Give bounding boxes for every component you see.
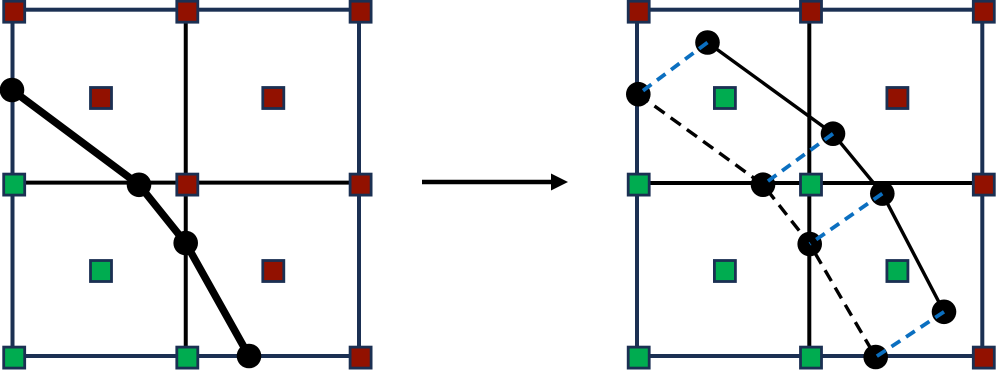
left grid inner horizontal line xyxy=(13,181,360,185)
right cell square bottom-left (green) xyxy=(714,261,735,282)
right old front marker 2 xyxy=(751,172,776,197)
left node square top-mid (red) xyxy=(177,1,198,22)
right node square mid-left (green) xyxy=(628,174,649,195)
arrow xyxy=(422,174,568,191)
right node square bottom-left (green) xyxy=(628,347,649,368)
left cell square top-left (red) xyxy=(91,88,112,109)
left node square bottom-left (green) xyxy=(4,347,25,368)
right grid inner horizontal line xyxy=(637,181,982,185)
blue connector marker4 old-new xyxy=(876,312,944,357)
right node square top-mid (red) xyxy=(801,1,822,22)
right node square mid-right (red) xyxy=(973,174,994,195)
left front marker 2 xyxy=(127,173,152,198)
right old front marker 3 xyxy=(797,232,822,257)
left node square center (red) xyxy=(177,174,198,195)
left node square mid-left (green) xyxy=(4,174,25,195)
left cell square top-right (red) xyxy=(263,88,284,109)
left cell square bottom-right (red) xyxy=(263,261,284,282)
right new front polyline (solid) xyxy=(708,43,945,312)
right new front marker 2 xyxy=(821,121,846,146)
left node square mid-right (red) xyxy=(350,174,371,195)
right cell square top-right (red) xyxy=(887,88,908,109)
right new front marker 4 xyxy=(932,300,957,325)
left grid inner vertical line xyxy=(184,10,188,356)
right new front marker 1 xyxy=(695,30,720,55)
left front marker 3 xyxy=(173,231,198,256)
right grid inner vertical line xyxy=(807,10,811,356)
right node square top-right (red) xyxy=(973,1,994,22)
left cell square bottom-left (green) xyxy=(91,261,112,282)
right node square top-left (red) xyxy=(628,1,649,22)
left node square top-right (red) xyxy=(350,1,371,22)
left node square top-left (red) xyxy=(4,1,25,22)
left front marker 1 xyxy=(0,78,24,103)
right node square center (green) xyxy=(801,174,822,195)
blue connector marker3 old-new xyxy=(810,194,883,244)
blue connector marker1 old-new xyxy=(638,43,707,95)
right old front marker 1 xyxy=(626,82,651,107)
right node square bottom-right (red) xyxy=(973,347,994,368)
right old front marker 4 xyxy=(863,345,888,370)
right node square bottom-mid (green) xyxy=(801,347,822,368)
left front marker 4 xyxy=(237,344,262,369)
right new front marker 3 xyxy=(870,181,895,206)
left node square bottom-mid (green) xyxy=(177,347,198,368)
right old front polyline (dashed) xyxy=(638,94,875,357)
right grid border xyxy=(637,10,982,356)
left grid border xyxy=(13,10,360,356)
blue connector marker2 old-new xyxy=(763,134,833,185)
left front polyline (thick) xyxy=(12,90,249,356)
right cell square top-left (green) xyxy=(714,88,735,109)
right cell square bottom-right (green) xyxy=(887,261,908,282)
left node square bottom-right (red) xyxy=(350,347,371,368)
